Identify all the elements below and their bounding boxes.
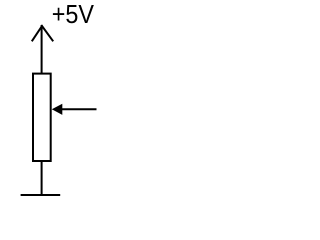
svg-text:+5V: +5V xyxy=(52,0,95,29)
